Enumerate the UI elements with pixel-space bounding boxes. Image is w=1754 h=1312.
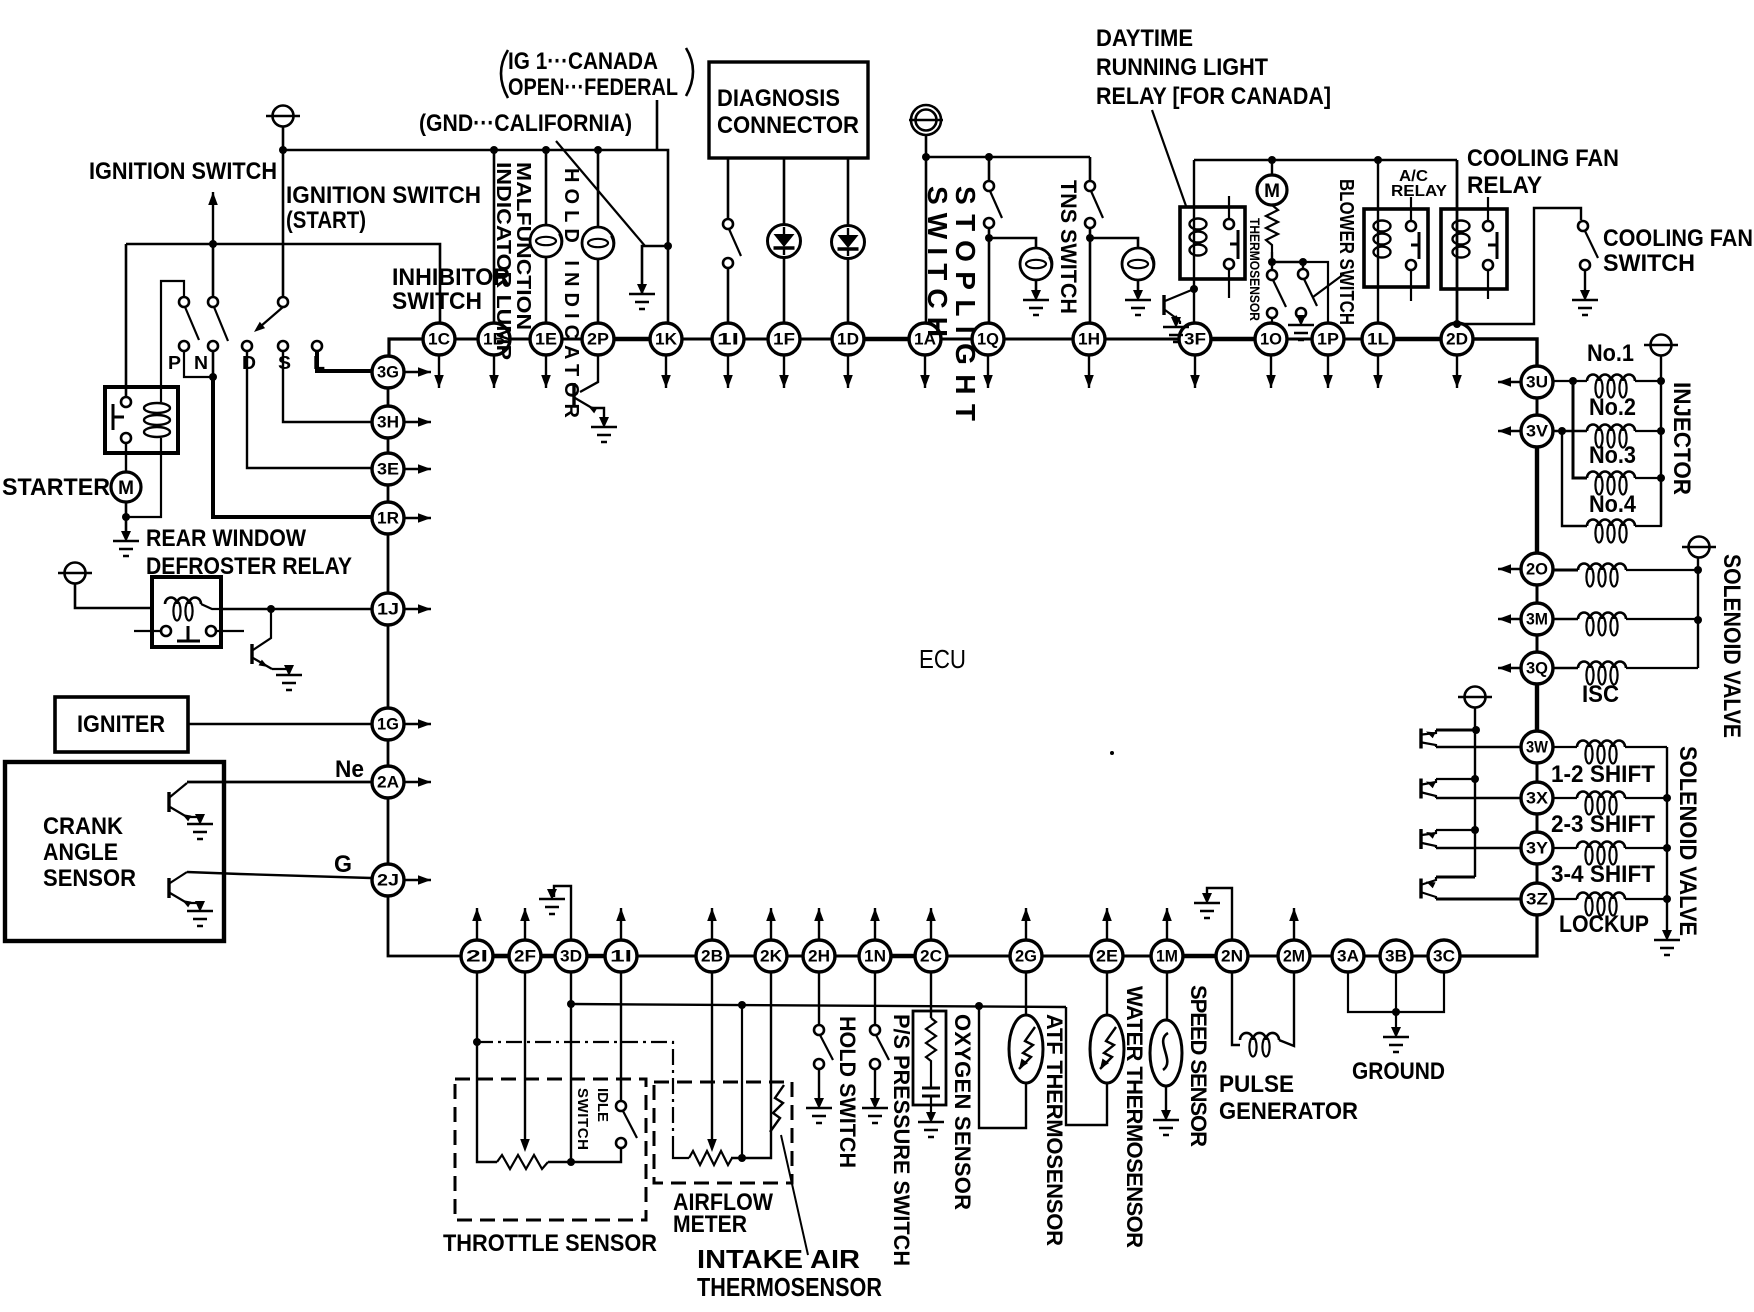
wire P contact to starter relay coil [161, 281, 184, 390]
connector pin 2A [372, 766, 404, 798]
wire TNS lamp to ground [1137, 280, 1140, 298]
svg-text:GENERATOR: GENERATOR [1219, 1098, 1358, 1125]
wire ECU top-left corner to 3G [389, 339, 423, 356]
ground above pin 3D [554, 886, 571, 940]
2-3 SHIFT solenoid coil [1577, 792, 1625, 799]
junction at 1667,798 [1663, 794, 1671, 802]
battery B+ symbol (shift solenoids) [1458, 687, 1492, 708]
connector pin 1H [1073, 323, 1105, 355]
arrow above pin 1N [874, 908, 876, 939]
transistor (crank sensor Ne) [167, 792, 170, 812]
connector pin 1I [605, 940, 637, 972]
annotation leader blower switch [1313, 274, 1344, 297]
svg-text:3E: 3E [377, 460, 399, 479]
connector pin 1F [768, 323, 800, 355]
junction at 979,1006 [975, 1002, 983, 1010]
wire injector No.4 to bus [1635, 478, 1661, 526]
annotation leader GND-California [556, 141, 645, 246]
wire defroster contact stub left [134, 630, 161, 632]
svg-text:1M: 1M [1156, 947, 1178, 966]
svg-text:1L: 1L [1367, 330, 1389, 349]
transistor (crank sensor G) [167, 878, 170, 898]
TNS switch [1085, 181, 1095, 191]
thermosensor resistor [1266, 205, 1278, 252]
junction at 1090,238 [1086, 234, 1094, 242]
wire relay contact to starter motor [125, 443, 127, 473]
junction at 546,150 [542, 146, 550, 154]
wire battery to defroster relay coil [75, 584, 152, 608]
svg-text:P/S PRESSURE SWITCH: P/S PRESSURE SWITCH [889, 1014, 914, 1266]
wire 3-4 SHIFT solenoid to ground bus [1625, 847, 1667, 849]
wire starter motor to ground [125, 502, 128, 532]
arrow left of pin 3U [1498, 381, 1520, 383]
arrow below pin 1A [924, 356, 926, 388]
svg-text:2H: 2H [808, 947, 830, 966]
wire N lower contact down [212, 351, 215, 377]
arrow to ignition switch [212, 192, 214, 244]
wire defroster relay to pin 1J [221, 608, 371, 610]
svg-text:1I: 1I [717, 330, 739, 349]
svg-text:1J: 1J [377, 600, 399, 619]
svg-text:N: N [194, 353, 208, 373]
transistor (defroster driver) [250, 644, 253, 664]
arrow left of pin 3M [1498, 618, 1520, 620]
svg-text:3B: 3B [1385, 947, 1407, 966]
wire top right bus [1194, 159, 1457, 162]
annotation leader daytime relay [1152, 110, 1186, 206]
arrow below pin 2D [1456, 356, 1458, 388]
injector No.3 coil [1587, 472, 1635, 478]
junction at 1667,899 [1663, 895, 1671, 903]
arrow left of pin 3V [1498, 430, 1520, 432]
svg-text:DIAGNOSIS: DIAGNOSIS [717, 85, 840, 112]
svg-text:IDLE: IDLE [594, 1088, 611, 1122]
wire top bus to daytime relay coil [1193, 160, 1195, 292]
svg-text:WATER THERMOSENSOR: WATER THERMOSENSOR [1122, 986, 1147, 1248]
wire L contact to pin 3G [317, 351, 371, 371]
injector No.1 coil [1587, 375, 1635, 382]
wire bus through A/C relay coil to pin 1L [1377, 160, 1379, 323]
svg-text:3M: 3M [1526, 610, 1548, 629]
svg-text:RUNNING LIGHT: RUNNING LIGHT [1096, 54, 1268, 81]
svg-text:3C: 3C [1433, 947, 1455, 966]
ground (TNS lamp) [1125, 290, 1151, 315]
svg-text:REAR WINDOW: REAR WINDOW [146, 525, 306, 552]
svg-text:IG 1···CANADA: IG 1···CANADA [508, 48, 658, 75]
junction at 926,157 [922, 153, 930, 161]
wire blower pole1 to pin 1O [1271, 318, 1273, 323]
junction at 1457,324 [1453, 320, 1461, 328]
svg-text:OPEN···FEDERAL: OPEN···FEDERAL [508, 74, 678, 101]
wire pin 3U to injectors [1553, 380, 1587, 382]
daytime relay contact [1224, 219, 1234, 229]
wire injector No.1 to bus [1635, 380, 1661, 382]
svg-text:SWITCH: SWITCH [1603, 250, 1695, 277]
wire ATF thermosensor to sensor bus [979, 1006, 1026, 1128]
svg-text:1K: 1K [655, 330, 678, 349]
wire LOCKUP solenoid to ground bus [1625, 898, 1667, 900]
ground (2P transistor) [591, 417, 617, 442]
pulse generator coil [1240, 1033, 1279, 1040]
svg-text:3U: 3U [1526, 373, 1548, 392]
junction at 213,244 [209, 240, 217, 248]
svg-text:COOLING FAN: COOLING FAN [1603, 225, 1753, 252]
wire TNS switch to pin 1H [1089, 228, 1092, 323]
A/C relay coil [1374, 221, 1391, 232]
ground (oxygen sensor) [918, 1112, 944, 1137]
svg-text:(START): (START) [286, 207, 366, 234]
svg-text:1G: 1G [377, 715, 399, 734]
connector pin 1J [372, 593, 404, 625]
arrow right of pin 1R [405, 517, 431, 519]
connector pin 2G [1010, 940, 1042, 972]
wire defroster contact stub right [216, 630, 244, 632]
pulse generator [1232, 972, 1240, 1045]
connector pin 1G [372, 708, 404, 740]
svg-text:STARTER: STARTER [2, 474, 110, 501]
wire blower bus to pole 2 [1272, 262, 1303, 269]
svg-text:2O: 2O [1526, 560, 1548, 579]
junction at 494,150 [490, 146, 498, 154]
cooling fan relay coil [1453, 221, 1470, 232]
blower motor M [1271, 160, 1273, 176]
ground (GND California) [629, 284, 655, 309]
wire starter relay coil to ground junction [126, 438, 161, 517]
injector supply bus [1660, 356, 1662, 526]
intake air thermosensor element [770, 1085, 784, 1132]
connector pin 1P [1312, 323, 1344, 355]
transistor (shift solenoid driver 1) [1419, 729, 1422, 749]
junction at 1562,431 [1558, 427, 1566, 435]
wire pin to LOCKUP solenoid coil [1553, 898, 1577, 900]
connector pin 1L [1362, 323, 1394, 355]
arrow above pin 2C [930, 908, 932, 939]
water thermosensor [1090, 1015, 1124, 1083]
connector pin 2H [803, 940, 835, 972]
ground (stoplight lamp) [1023, 290, 1049, 315]
defroster relay coil [165, 598, 201, 605]
wire to inhibitor N contact [212, 244, 215, 296]
arrow below pin 1B [493, 356, 495, 388]
svg-text:2K: 2K [760, 947, 783, 966]
svg-text:TNS SWITCH: TNS SWITCH [1056, 180, 1081, 314]
junction at 1303,262 [1299, 258, 1307, 266]
ground (shift solenoids) [1654, 930, 1680, 955]
wire bus corner through cooling fan relay coil to pin 2D [1456, 160, 1459, 323]
svg-text:GROUND: GROUND [1352, 1058, 1445, 1085]
connector pin 2M [1278, 940, 1310, 972]
wire solenoid 2O to bus [1626, 569, 1698, 571]
wire to TNS switch [1089, 157, 1092, 181]
svg-text:3Q: 3Q [1526, 659, 1548, 678]
svg-text:CONNECTOR: CONNECTOR [717, 112, 859, 139]
svg-text:COOLING FAN: COOLING FAN [1467, 145, 1619, 172]
connector pin 3Y [1521, 832, 1553, 864]
junction at 1573,381 [1569, 377, 1577, 385]
svg-text:1O: 1O [1260, 330, 1282, 349]
airflow meter resistor [673, 1152, 689, 1158]
svg-text:DAYTIME: DAYTIME [1096, 25, 1193, 52]
svg-text:STOPLIGHT: STOPLIGHT [950, 186, 981, 421]
crank angle sensor box [5, 762, 224, 941]
arrow right of pin 3H [405, 421, 431, 423]
wire stoplight switch to pin 1Q [988, 228, 991, 323]
wire transistor 1 emitter to pin [1436, 746, 1521, 748]
svg-text:1E: 1E [535, 330, 557, 349]
rear window defroster relay box [152, 577, 221, 647]
svg-text:3F: 3F [1184, 330, 1206, 349]
svg-text:2P: 2P [587, 330, 609, 349]
arrow below pin 1C [438, 356, 440, 388]
svg-text:3Z: 3Z [1526, 890, 1548, 909]
wire battery to inhibitor switch common [282, 127, 285, 296]
svg-text:No.4: No.4 [1589, 491, 1637, 518]
wire 1-2 SHIFT solenoid to ground bus [1625, 746, 1667, 748]
starter relay coil [144, 403, 170, 413]
svg-text:3Y: 3Y [1526, 839, 1549, 858]
junction at 1378,160 [1374, 156, 1382, 164]
connector pin 1M [1151, 940, 1183, 972]
diagnosis connector box [709, 62, 868, 158]
connector pin 1D [832, 323, 864, 355]
wire to hold indicator lamp [597, 150, 600, 228]
wire S contact to pin 3H [283, 351, 371, 422]
connector pin 3U [1521, 366, 1553, 398]
wire ignition start bus [126, 244, 440, 323]
wire battery feed to pin 1A [925, 135, 928, 323]
connector pin 3D [555, 940, 587, 972]
svg-text:IGNITER: IGNITER [77, 711, 165, 738]
wire ECU bottom-right corner 3C to 3Z [1460, 915, 1537, 956]
wire to TNS lamp [1090, 238, 1138, 249]
connector pin 1C [423, 323, 455, 355]
inhibitor switch common contact [278, 297, 288, 307]
svg-text:2B: 2B [701, 947, 723, 966]
svg-text:RELAY: RELAY [1467, 172, 1542, 199]
LED (diagnosis monitor 1F) [768, 225, 801, 258]
svg-text:SWITCH: SWITCH [574, 1088, 591, 1150]
cooling fan relay box [1441, 209, 1507, 289]
junction at 742,1158 [738, 1154, 746, 1162]
wire ECU left bus [387, 388, 390, 406]
wire P lower to N junction [184, 351, 213, 377]
wire 3U branch down to injector No.3 [1573, 381, 1587, 478]
connector pin 1K [650, 323, 682, 355]
wire LED to pin 1F [783, 257, 786, 323]
junction at 1661,431 [1657, 427, 1665, 435]
throttle sensor resistor [497, 1155, 548, 1169]
junction at 477,1042 [473, 1038, 481, 1046]
wire diagnosis connector to LED 1 [783, 158, 786, 225]
svg-text:M: M [1264, 181, 1280, 202]
connector pin 1R [372, 502, 404, 534]
svg-text:THERMOSENSOR: THERMOSENSOR [1247, 218, 1263, 321]
arrow right of pin 2A [405, 781, 431, 783]
junction at 1698,620 [1694, 616, 1702, 624]
battery B+ symbol (ignition feed) [266, 106, 300, 127]
wire injector No.2 to bus [1635, 430, 1661, 432]
connector pin 2N [1216, 940, 1248, 972]
connector pin 3B [1380, 940, 1412, 972]
arrow below pin 1K [665, 356, 667, 388]
connector pin 2F [509, 940, 541, 972]
wire feed bus to stoplight and TNS switches [926, 156, 1090, 158]
igniter box [55, 697, 188, 752]
svg-text:3G: 3G [377, 363, 399, 382]
wire ECU bottom bus [493, 954, 509, 959]
test switch (diagnosis connector) [723, 219, 733, 229]
wire N junction to pin 1R [213, 377, 371, 517]
throttle sensor dashed box [455, 1079, 646, 1220]
svg-text:2G: 2G [1015, 947, 1037, 966]
connector pin 1N [859, 940, 891, 972]
wire to stoplight lamp [989, 238, 1036, 249]
inhibitor switch P-N poles [179, 297, 189, 307]
svg-text:1R: 1R [377, 509, 399, 528]
svg-text:HOLD SWITCH: HOLD SWITCH [835, 1016, 860, 1168]
arrow above pin 2B [711, 908, 713, 939]
arrow above pin 2M [1293, 908, 1295, 939]
connector pin 3E [372, 453, 404, 485]
junction at 1194,289 [1190, 285, 1198, 293]
svg-text:3D: 3D [560, 947, 582, 966]
wire transistor 2 emitter to pin [1436, 797, 1521, 799]
battery B+ symbol (injectors) [1644, 335, 1678, 356]
arrow right of pin 3G [405, 371, 431, 373]
wire pin 2I into throttle sensor [477, 972, 497, 1162]
svg-text:2M: 2M [1283, 947, 1305, 966]
oxygen sensor cell [922, 1087, 940, 1090]
hold indicator lamp [582, 227, 614, 259]
junction at 1475,779 [1471, 775, 1479, 783]
svg-text:3X: 3X [1526, 789, 1549, 808]
svg-text:MALFUNCTION: MALFUNCTION [512, 162, 534, 330]
connector pin 1A [909, 323, 941, 355]
junction at 1272,160 [1268, 156, 1276, 164]
stoplight lamp [1020, 248, 1052, 280]
solenoid valve supply bus [1697, 558, 1699, 668]
wire pin 2O to solenoid coil [1553, 569, 1578, 572]
wire ISC solenoid to bus [1626, 667, 1698, 669]
svg-text:3-4 SHIFT: 3-4 SHIFT [1551, 861, 1655, 888]
arrow below pin 1I [727, 356, 729, 388]
connector pin 2B [696, 940, 728, 972]
cooling fan switch [1578, 221, 1588, 231]
junction at 1476,730 [1472, 726, 1480, 734]
connector pin 2J [372, 864, 404, 896]
arrow right of pin 1J [405, 608, 431, 610]
wire airflow resistor to pin 2K [731, 972, 771, 1158]
injector No.2 coil [1587, 425, 1635, 432]
svg-text:ECU: ECU [919, 644, 966, 674]
wire Ne to pin 2A [187, 781, 371, 784]
LOCKUP solenoid coil [1577, 893, 1625, 900]
wire transistor 4 emitter to pin [1436, 898, 1521, 901]
connector pin 2E [1091, 940, 1123, 972]
wire pin to 2-3 SHIFT solenoid coil [1553, 797, 1577, 799]
svg-text:CRANK: CRANK [43, 813, 124, 840]
svg-text:RELAY: RELAY [1391, 183, 1447, 200]
junction at 1667,848 [1663, 844, 1671, 852]
wire 3V branch down to injector No.4 [1562, 431, 1587, 526]
wire CF contact stub down [1487, 270, 1489, 299]
shift solenoid transistor bus [1474, 708, 1476, 877]
svg-text:THROTTLE SENSOR: THROTTLE SENSOR [443, 1230, 657, 1257]
speck [1110, 751, 1114, 755]
transistor (shift solenoid driver 3) [1419, 829, 1422, 849]
junction at 668,246 [664, 242, 672, 250]
svg-text:SPEED SENSOR: SPEED SENSOR [1186, 985, 1211, 1147]
svg-text:2C: 2C [920, 947, 942, 966]
connector pin 1O [1255, 323, 1287, 355]
wire water thermosensor to sensor bus [1066, 1007, 1107, 1125]
svg-text:No.1: No.1 [1587, 340, 1634, 367]
svg-text:1-2 SHIFT: 1-2 SHIFT [1551, 761, 1655, 788]
svg-text:3W: 3W [1526, 738, 1549, 757]
connector pin 3W [1521, 731, 1553, 763]
connector pin 1I [712, 323, 744, 355]
junction at 283,150 [279, 146, 287, 154]
svg-text:IGNITION SWITCH: IGNITION SWITCH [286, 182, 481, 209]
wire pins 3A 3B 3C to ground [1348, 972, 1444, 1012]
svg-text:2E: 2E [1096, 947, 1118, 966]
junction at 1396,1012 [1392, 1008, 1400, 1016]
junction at 1661,478 [1657, 474, 1665, 482]
wire junction to ground [642, 246, 668, 293]
wire throttle resistor to idle switch [548, 1148, 621, 1162]
ground (speed sensor) [1153, 1110, 1179, 1135]
ground (defroster transistor) [276, 665, 302, 690]
wire pin 1N to P/S switch [874, 972, 876, 1025]
svg-text:1N: 1N [864, 947, 886, 966]
arrow right of pin 3E [405, 468, 431, 470]
wire D contact to pin 3E [247, 351, 371, 468]
junction at 1475,830 [1471, 826, 1479, 834]
ground (P/S pressure switch) [862, 1098, 888, 1123]
wire blower bus to pin 1P [1303, 262, 1328, 323]
arrow above pin 2K [770, 908, 772, 939]
wire ECU right bus [1536, 398, 1539, 415]
wire pin 1I to idle switch [620, 972, 622, 1101]
connector pin 3Q [1521, 652, 1553, 684]
junction at 742,1005 [738, 1001, 746, 1009]
svg-text:SWITCH: SWITCH [392, 288, 482, 315]
solenoid valve coil (2O) [1578, 564, 1626, 570]
arrow above pin 2F [524, 908, 526, 939]
wire pin 3M to solenoid coil [1553, 618, 1578, 620]
svg-text:LOCKUP: LOCKUP [1559, 911, 1649, 938]
svg-text:S: S [278, 353, 291, 373]
svg-text:P: P [168, 353, 181, 373]
svg-text:2-3 SHIFT: 2-3 SHIFT [1551, 811, 1655, 838]
connector pin 3H [372, 406, 404, 438]
annotation leader intake air thermosensor [781, 1135, 808, 1255]
1-2 SHIFT solenoid coil [1577, 741, 1625, 748]
arrow above pin 1M [1166, 908, 1168, 939]
ground (2N) [1194, 893, 1220, 918]
wire igniter to pin 1G [188, 723, 371, 726]
wire lamp to pin 2P [597, 259, 600, 323]
connector pin 2K [755, 940, 787, 972]
junction at 1661,381 [1657, 377, 1665, 385]
svg-text:2F: 2F [514, 947, 536, 966]
wire pin 2C to oxygen sensor [930, 972, 932, 1018]
ground (starter) [113, 531, 139, 556]
transistor (shift solenoid driver 4) [1419, 879, 1422, 899]
arrow below pin 1D [847, 356, 849, 388]
svg-text:2J: 2J [377, 871, 399, 890]
arrow below pin 1L [1377, 356, 1379, 388]
